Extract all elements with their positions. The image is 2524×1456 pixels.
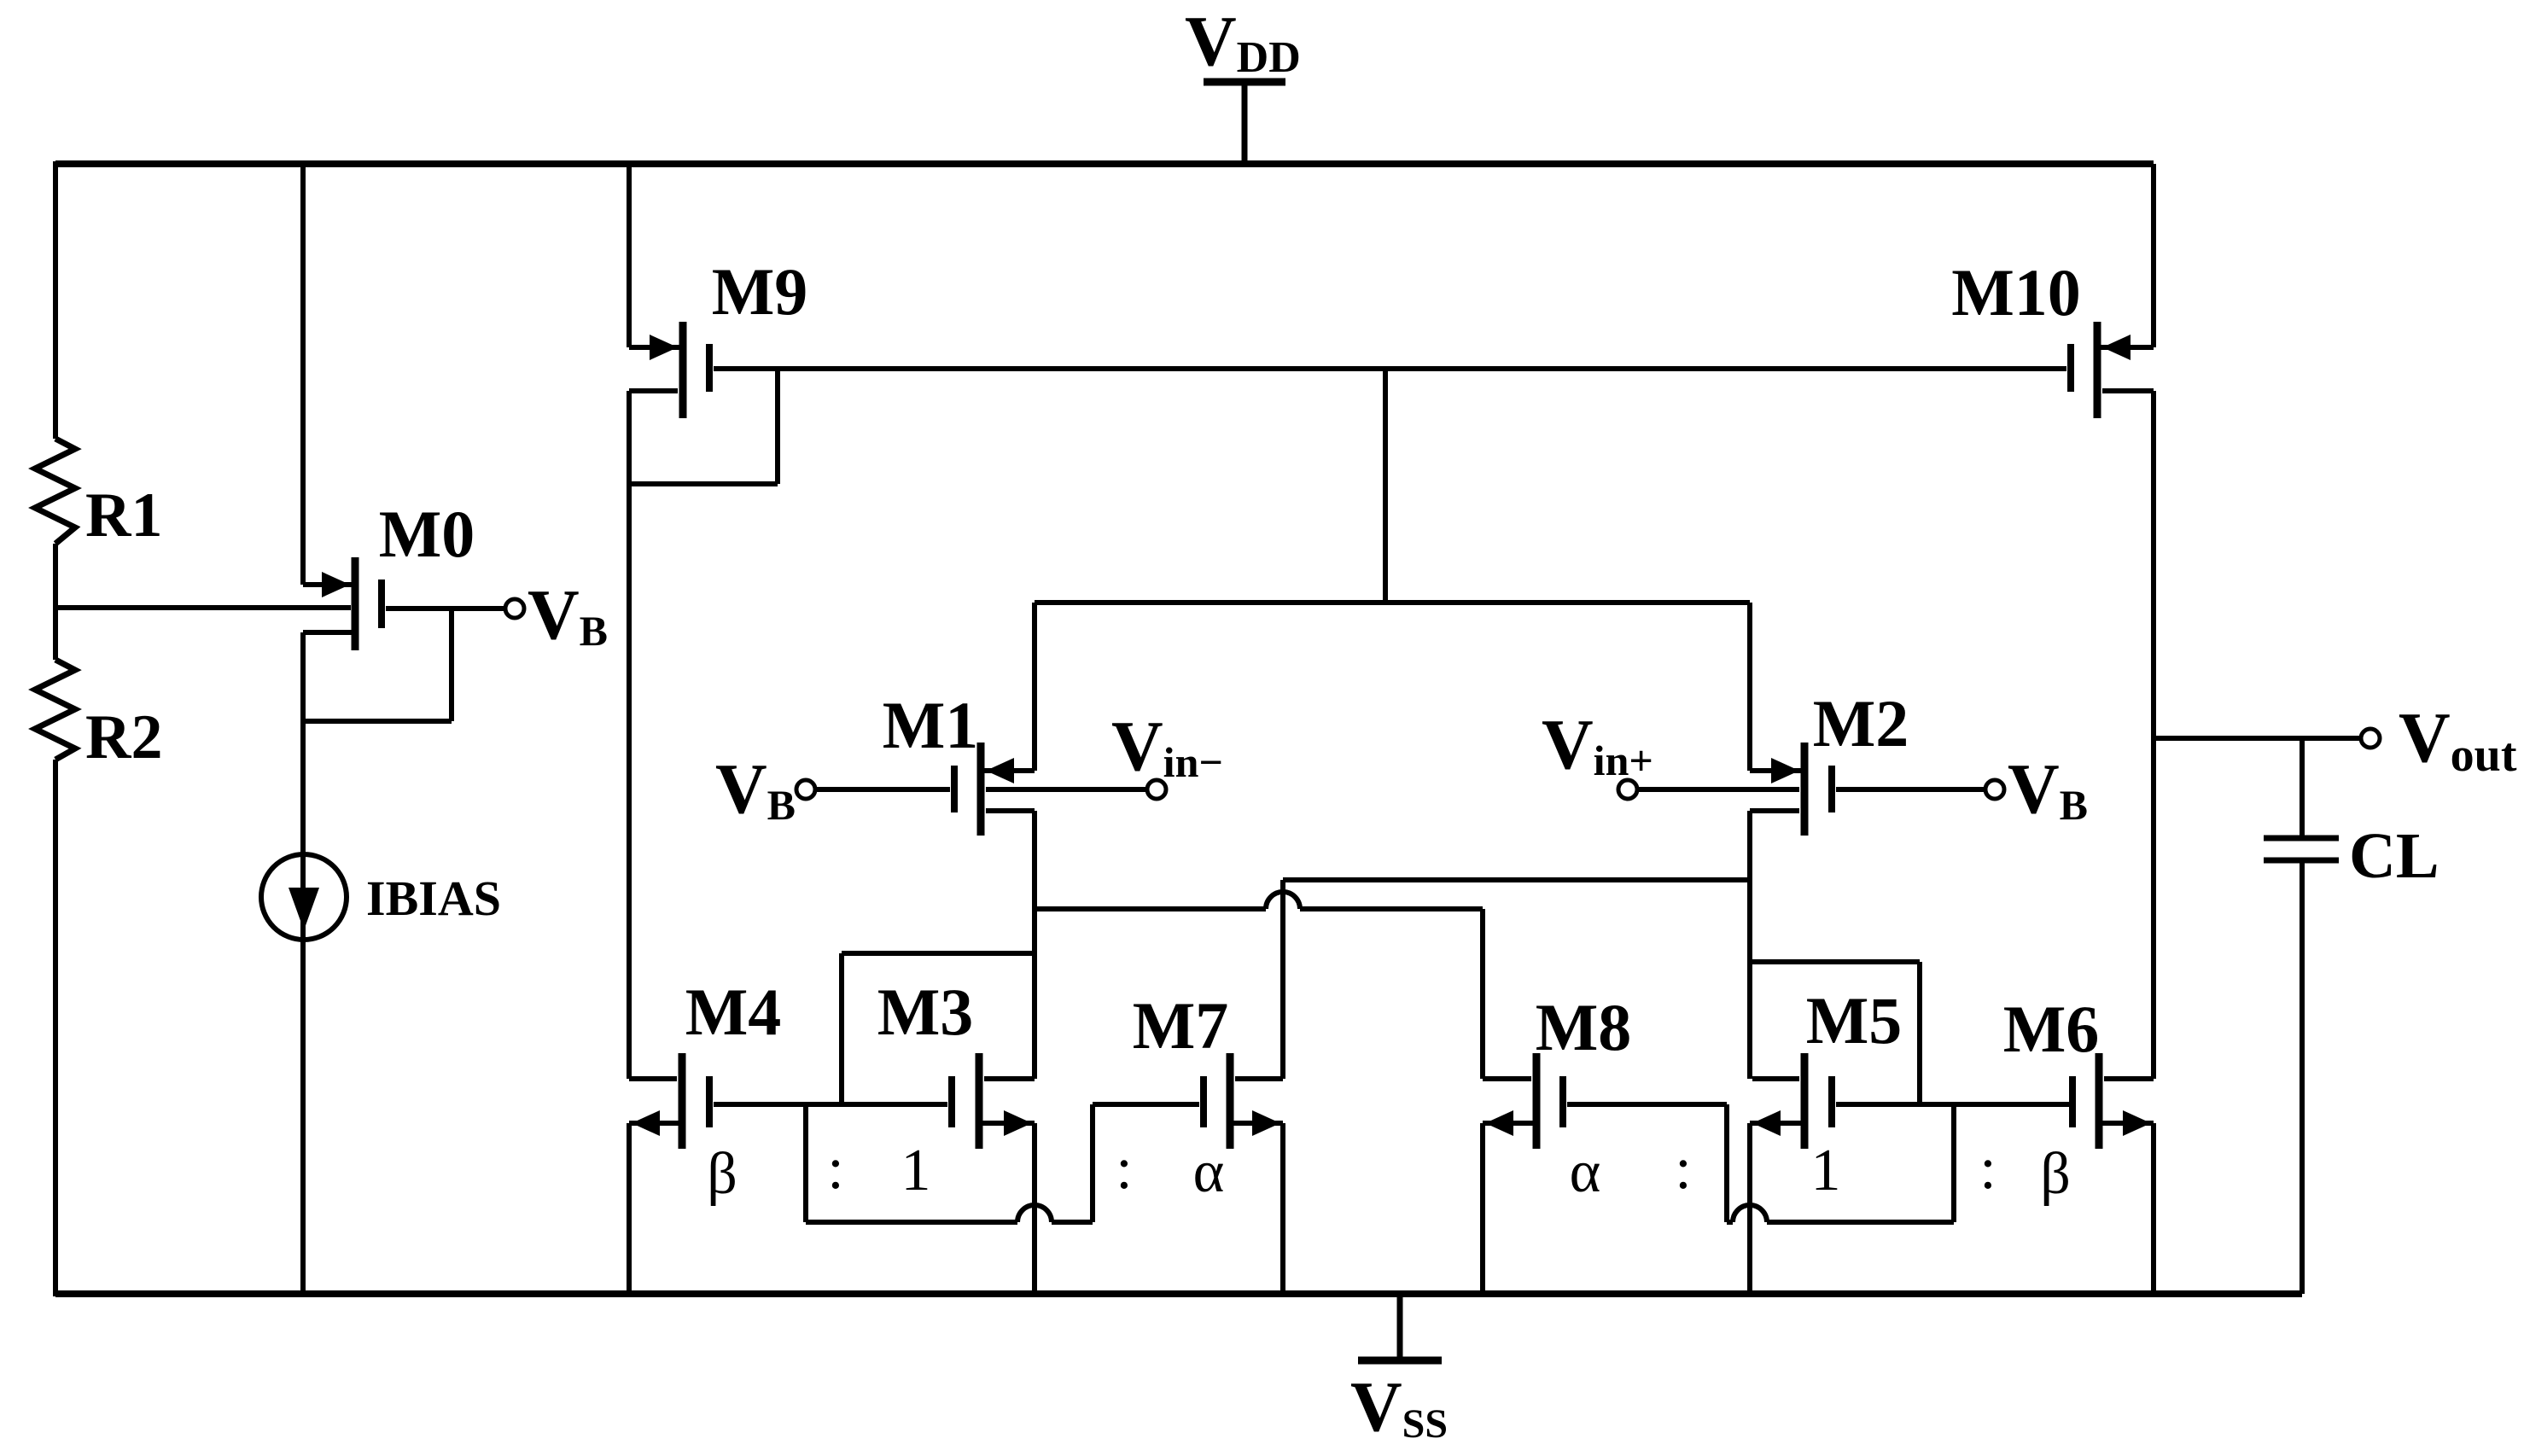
wire M5 drain — [1752, 1076, 1799, 1081]
resistor R2 — [35, 660, 75, 760]
label M0 — [379, 497, 475, 571]
svg-text:M10: M10 — [1951, 255, 2081, 329]
wire VB to M1 gate — [815, 787, 950, 792]
wire M9 drain to M4 drain — [627, 391, 632, 1079]
terminal Vout — [2361, 698, 2517, 782]
label ratio beta left — [707, 1141, 737, 1207]
wire gate cross-under right — [1727, 1104, 1954, 1222]
transistor M7 — [1200, 1053, 1280, 1149]
svg-text::: : — [1979, 1136, 1996, 1202]
wire M7 gate wire — [1093, 1102, 1199, 1107]
svg-text:M1: M1 — [883, 688, 979, 762]
wire left rail middle — [53, 544, 58, 660]
svg-text:1: 1 — [901, 1138, 931, 1203]
svg-text::: : — [827, 1136, 843, 1202]
wire M1 drain to M8 drain (B) — [1035, 892, 1483, 909]
transistor M9 — [650, 322, 713, 418]
wire right rail M10 drain to M6 drain — [2151, 391, 2156, 1079]
wire M9 drain — [629, 388, 678, 393]
wire M4 source — [629, 1123, 679, 1294]
wire M6 drain — [2104, 1076, 2154, 1081]
wire Vin+ to M2 — [1637, 787, 1799, 792]
label CL — [2349, 820, 2439, 892]
transistor M5 — [1752, 1053, 1835, 1149]
wire M3 drain — [984, 1076, 1035, 1081]
label ratio beta right — [2040, 1141, 2071, 1207]
svg-text:IBIAS: IBIAS — [366, 871, 501, 926]
label M10 — [1951, 255, 2081, 329]
svg-text:M0: M0 — [379, 497, 475, 571]
wire M1 to Vin- terminal — [986, 787, 1147, 792]
wire R-divider node to M0 — [55, 605, 351, 610]
wire tail to gate bus connector — [1383, 369, 1388, 603]
wire M5 source — [1750, 1123, 1801, 1294]
wire M2 drain — [1750, 808, 1799, 813]
wire M10 source from VDD — [2101, 164, 2154, 347]
wire left rail upper — [53, 161, 58, 439]
wire M4 drain — [629, 1076, 677, 1081]
svg-text:R1: R1 — [85, 480, 162, 550]
terminal Vin- — [1111, 707, 1223, 799]
wire M3 source — [982, 1123, 1035, 1294]
svg-text:M3: M3 — [877, 975, 974, 1049]
transistor M6 — [2069, 1053, 2151, 1149]
label M6 — [2003, 992, 2100, 1066]
label ratio colon 2 right — [1979, 1136, 1996, 1202]
wire VDD top rail — [55, 160, 2154, 167]
label ratio colon 1 right — [1675, 1136, 1691, 1202]
wire M7 drain — [1235, 880, 1283, 1079]
wire gate cross-under left — [806, 1104, 1093, 1222]
svg-text:M2: M2 — [1813, 686, 1909, 760]
label M1 — [883, 688, 979, 762]
wire M1 drain down to M3 — [1032, 811, 1037, 1079]
wire M1 drain — [986, 808, 1035, 813]
label ratio colon 1 left — [827, 1136, 843, 1202]
wire M1 source — [984, 768, 1035, 773]
transistor M8 — [1485, 1053, 1566, 1149]
label M2 — [1813, 686, 1909, 760]
wire M8 drain — [1483, 909, 1531, 1079]
ground VSS symbol — [1350, 1294, 1448, 1447]
transistor M1 — [951, 743, 1014, 836]
svg-text:β: β — [707, 1141, 737, 1207]
svg-text::: : — [1116, 1136, 1132, 1202]
wire M8 gate wire — [1567, 1102, 1727, 1107]
terminal VB (M2) — [1985, 749, 2088, 829]
svg-text:α: α — [1193, 1139, 1225, 1205]
wire M3 gate-drain loop — [842, 953, 1035, 1104]
svg-text:M7: M7 — [1133, 988, 1229, 1063]
label M9 — [712, 254, 808, 329]
wire M6 source — [2102, 1123, 2154, 1296]
label ratio one left — [901, 1138, 931, 1203]
label M8 — [1536, 990, 1632, 1064]
svg-text:1: 1 — [1811, 1138, 1841, 1203]
wire M0 source — [303, 632, 355, 854]
svg-text:M9: M9 — [712, 254, 808, 329]
wire M4-M3 gate bus — [714, 1102, 947, 1107]
svg-text:M6: M6 — [2003, 992, 2100, 1066]
wire M7 source — [1233, 1123, 1283, 1294]
wire M9 gate-drain tie — [629, 369, 778, 484]
resistor R1 — [35, 439, 75, 544]
wire tail node — [1035, 600, 1750, 605]
transistor M3 — [948, 1053, 1032, 1149]
svg-text:R2: R2 — [85, 702, 162, 772]
label ratio one right — [1811, 1138, 1841, 1203]
wire output node — [2154, 736, 2361, 741]
power VDD symbol — [1185, 2, 1301, 164]
wire tail to M2 source — [1747, 603, 1752, 771]
wire M8 source — [1483, 1123, 1533, 1294]
transistor M2 — [1771, 743, 1835, 836]
wire left rail lower — [53, 760, 58, 1296]
label ratio alpha left — [1193, 1139, 1225, 1205]
wire M9-M10 gate bus — [714, 366, 2066, 371]
wire M0 gate tie — [303, 609, 452, 721]
svg-text:M8: M8 — [1536, 990, 1632, 1064]
wire M2 drain down to M5 — [1747, 811, 1752, 1079]
label M7 — [1133, 988, 1229, 1063]
transistor M10 — [2067, 322, 2131, 418]
wire M7 drain to M2 drain (A) — [1283, 877, 1750, 882]
terminal VB (M0) — [505, 575, 608, 655]
label R1 — [85, 480, 162, 550]
svg-text:CL: CL — [2349, 820, 2439, 892]
wire tail to M1 source — [1032, 603, 1037, 771]
transistor M4 — [632, 1053, 713, 1149]
current source IBIAS — [261, 854, 347, 940]
wire VSS bottom rail — [55, 1290, 2302, 1297]
label ratio colon 2 left — [1116, 1136, 1132, 1202]
label R2 — [85, 702, 162, 772]
wire M0 gate to VB — [386, 606, 505, 611]
label IBIAS — [366, 871, 501, 926]
svg-text:β: β — [2040, 1141, 2071, 1207]
wire M5-M6 gate bus — [1836, 1102, 2069, 1107]
wire M10 drain — [2102, 388, 2154, 393]
label M3 — [877, 975, 974, 1049]
wire M9 source from VDD — [629, 164, 679, 347]
terminal Vin+ — [1542, 705, 1653, 799]
transistor M0 — [322, 557, 385, 650]
terminal VB (M1) — [715, 749, 815, 829]
svg-text:M4: M4 — [685, 975, 782, 1049]
wire M0 drain from VDD — [303, 164, 352, 585]
svg-text:M5: M5 — [1806, 983, 1903, 1057]
wire IBIAS to VSS rail — [300, 854, 306, 1294]
svg-text::: : — [1675, 1136, 1691, 1202]
label M5 — [1806, 983, 1903, 1057]
wire M5 gate-drain loop — [1750, 962, 1920, 1104]
svg-text:α: α — [1570, 1139, 1601, 1205]
wire M2 source — [1750, 768, 1801, 773]
label M4 — [685, 975, 782, 1049]
label ratio alpha right — [1570, 1139, 1601, 1205]
wire M2 gate to VB — [1836, 787, 1985, 792]
capacitor CL — [2264, 738, 2339, 1294]
